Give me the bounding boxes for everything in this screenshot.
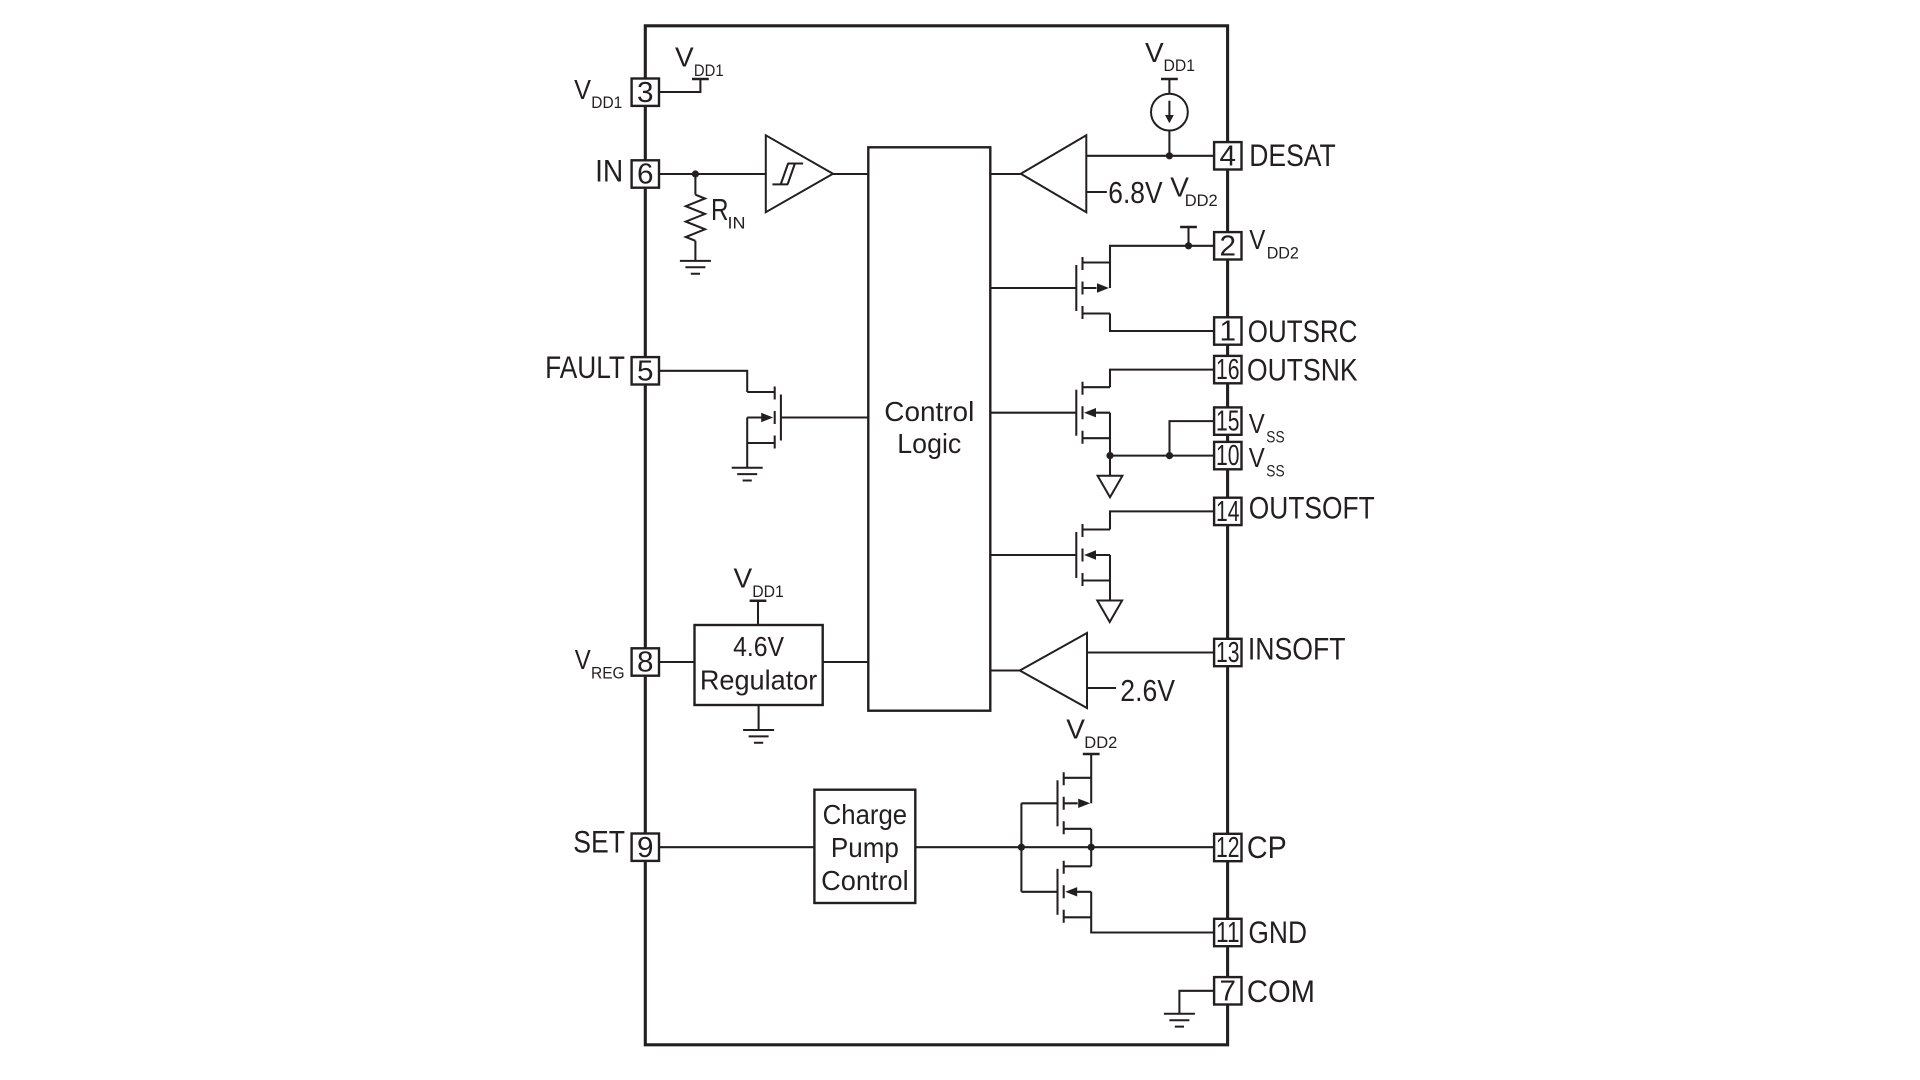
wire comparator to control logic (990, 669, 1020, 671)
svg-text:V: V (1249, 442, 1265, 473)
wire SET to charge pump control (659, 846, 815, 848)
transistor sink-driver NMOS (1076, 382, 1110, 444)
pin 4 box (1214, 140, 1241, 172)
wire comparator to control logic (990, 173, 1021, 175)
wire schmitt to control logic (833, 173, 868, 175)
wire gate bus verticals (1021, 803, 1057, 892)
svg-text:SS: SS (1266, 462, 1284, 481)
wire VSS pin15 jog (1170, 421, 1215, 456)
wire OUTSNK pin to NMOS drain (1110, 370, 1214, 388)
node VSS junction A (1106, 452, 1113, 459)
node IN junction (692, 170, 699, 177)
wire OUTSNK gate from control logic (990, 412, 1076, 414)
svg-text:V: V (1249, 408, 1265, 439)
wire OUTSRC gate from control logic (990, 287, 1076, 289)
pin label OUTSNK (1247, 353, 1358, 388)
wire node to resistor (694, 174, 696, 195)
svg-text:10: 10 (1216, 440, 1240, 472)
svg-text:2: 2 (1220, 230, 1237, 262)
regulator 4.6V block (695, 625, 823, 705)
wire pin3 to VDD1 supply (659, 79, 701, 92)
svg-text:6.8V: 6.8V (1108, 176, 1163, 210)
schmitt trigger buffer (766, 135, 833, 212)
ground below fault transistor (732, 468, 763, 481)
wire regulator to control logic (823, 661, 869, 663)
svg-text:V: V (574, 74, 591, 105)
svg-text:DD1: DD1 (591, 93, 622, 112)
transistor soft-off NMOS (1076, 524, 1110, 586)
svg-text:OUTSRC: OUTSRC (1248, 314, 1358, 349)
pin label CP (1247, 830, 1287, 865)
wire NMOS source to GND pin (1091, 892, 1214, 933)
ground below regulator (743, 730, 774, 743)
svg-text:7: 7 (1220, 975, 1237, 1007)
svg-text:DESAT: DESAT (1249, 138, 1336, 173)
svg-text:DD1: DD1 (694, 61, 724, 80)
svg-text:8: 8 (637, 647, 654, 679)
node VDD2 junction (1185, 242, 1192, 249)
power symbol VDD1 (current source) (1145, 37, 1195, 79)
wire OUTSOFT gate from control logic (990, 554, 1076, 556)
pin 7 box (1214, 975, 1241, 1007)
wire DESAT pin to comparator (1086, 155, 1214, 157)
svg-text:SET: SET (573, 824, 625, 859)
svg-text:IN: IN (728, 214, 746, 233)
VSS triangle (below OUTSOFT) (1097, 601, 1122, 623)
wire VSS node to triangle (1109, 456, 1111, 476)
pin label DESAT (1249, 138, 1336, 173)
svg-text:14: 14 (1216, 496, 1240, 528)
svg-text:OUTSNK: OUTSNK (1247, 353, 1358, 388)
svg-text:CP: CP (1247, 830, 1287, 865)
resistor RIN (686, 193, 746, 241)
svg-text:COM: COM (1247, 974, 1315, 1009)
svg-text:V: V (575, 644, 591, 675)
svg-text:DD2: DD2 (1185, 191, 1218, 210)
wire CP node to NMOS drain (1090, 847, 1092, 866)
svg-text:Control: Control (821, 865, 909, 896)
wire INSOFT pin to comparator (1087, 651, 1214, 653)
node CP output (1088, 844, 1095, 851)
wire resistor to ground (694, 241, 696, 261)
svg-text:Pump: Pump (831, 832, 899, 863)
wire OUTSOFT pin to NMOS drain (1110, 511, 1214, 529)
wire VDD1 bar to regulator (757, 601, 759, 625)
svg-text:4: 4 (1220, 140, 1237, 172)
pin 2 box (1214, 230, 1241, 262)
svg-text:2.6V: 2.6V (1120, 674, 1175, 708)
wire VDD2 pin to PMOS source (1110, 246, 1214, 288)
svg-text:R: R (711, 193, 729, 227)
pin label VSS (15) (1249, 408, 1285, 447)
pin 3 box (632, 77, 659, 109)
transistor source-driver PMOS (1076, 257, 1110, 319)
pin label VDD2 (1249, 224, 1299, 263)
svg-text:V: V (734, 563, 753, 594)
pin label IN (595, 153, 623, 188)
wire VSS node to pin10 (1110, 455, 1214, 457)
svg-text:Regulator: Regulator (700, 664, 818, 695)
VSS triangle (below OUTSNK) (1098, 476, 1123, 498)
pin label SET (573, 824, 625, 859)
svg-text:SS: SS (1266, 428, 1284, 447)
pin 14 box (1214, 496, 1241, 528)
svg-text:V: V (1145, 37, 1164, 68)
ground at COM (1164, 1014, 1195, 1027)
svg-text:OUTSOFT: OUTSOFT (1249, 491, 1375, 526)
svg-text:REG: REG (591, 664, 625, 683)
svg-text:DD2: DD2 (1084, 733, 1117, 752)
svg-text:V: V (1066, 713, 1085, 744)
pin label FAULT (545, 350, 625, 385)
charge pump control block (814, 790, 915, 903)
svg-text:DD2: DD2 (1267, 244, 1299, 263)
wire PMOS drain to CP node (1090, 829, 1092, 847)
pin 11 box (1214, 917, 1241, 949)
comparator desat 6.8V (1021, 135, 1163, 212)
pin label GND (1248, 915, 1307, 950)
wire regulator to ground (758, 705, 760, 730)
pin 12 box (1214, 832, 1241, 864)
pin 1 box (1214, 316, 1241, 348)
wire VDD2 to PMOS source (1090, 754, 1092, 803)
svg-text:DD1: DD1 (1164, 56, 1196, 75)
comparator insoft 2.6V (1020, 633, 1176, 708)
svg-text:12: 12 (1216, 832, 1240, 864)
svg-text:Logic: Logic (897, 428, 961, 459)
IC boundary box U1 (645, 26, 1227, 1045)
svg-text:6: 6 (637, 159, 654, 191)
svg-text:V: V (1249, 224, 1265, 255)
wire IN to schmitt buffer (659, 173, 766, 175)
wire fault gate to control logic (781, 416, 868, 418)
wire NMOS source to VSS triangle (1109, 555, 1111, 601)
svg-text:V: V (675, 42, 694, 73)
pin 15 box (1214, 406, 1241, 438)
pin 8 box (632, 647, 659, 679)
svg-text:INSOFT: INSOFT (1248, 631, 1346, 666)
svg-text:13: 13 (1216, 637, 1240, 669)
control logic block (868, 147, 990, 710)
wire NMOS source to VSS node (1109, 413, 1111, 456)
wire charge pump to CP pin (915, 846, 1214, 848)
svg-text:DD1: DD1 (752, 582, 784, 601)
svg-text:5: 5 (637, 355, 654, 387)
ground below RIN (680, 261, 711, 274)
svg-text:GND: GND (1248, 915, 1307, 950)
pin 10 box (1214, 440, 1241, 472)
pin 6 box (632, 159, 659, 191)
wire PMOS drain to OUTSRC pin (1110, 314, 1214, 332)
pin label VDD1 (574, 74, 622, 112)
transistor charge-pump PMOS (1058, 772, 1092, 834)
power symbol VDD1 (regulator) (734, 563, 784, 602)
transistor Q1 fault open-drain NMOS (mirrored) (747, 387, 781, 449)
node CP gate drive (1018, 844, 1025, 851)
pin label INSOFT (1248, 631, 1346, 666)
pin 5 box (632, 355, 659, 387)
pin 13 box (1214, 637, 1241, 669)
svg-text:1: 1 (1220, 316, 1237, 348)
wire fault source to ground (746, 418, 748, 468)
svg-text:11: 11 (1216, 917, 1240, 949)
wire COM pin to ground (1179, 991, 1214, 1014)
svg-text:4.6V: 4.6V (733, 631, 785, 662)
pin label OUTSRC (1248, 314, 1358, 349)
node DESAT junction (1166, 152, 1173, 159)
svg-text:Charge: Charge (823, 799, 908, 830)
node VSS junction B (1166, 452, 1173, 459)
wire FAULT to transistor drain (659, 371, 747, 392)
svg-text:IN: IN (595, 153, 623, 188)
pin label VSS (10) (1249, 442, 1285, 481)
pin 9 box (632, 832, 659, 864)
pin label VREG (575, 644, 625, 683)
power symbol VDD2 (charge pump) (1066, 713, 1117, 754)
power symbol VDD1 (pin 3) (675, 42, 724, 80)
svg-text:3: 3 (637, 77, 654, 109)
transistor charge-pump NMOS (1058, 861, 1092, 923)
pin label COM (1247, 974, 1315, 1009)
wire VREG to regulator (659, 661, 695, 663)
svg-text:Control: Control (884, 396, 974, 427)
svg-text:15: 15 (1216, 406, 1240, 438)
svg-text:16: 16 (1216, 354, 1240, 386)
pin label OUTSOFT (1249, 491, 1375, 526)
current source I1 (1151, 79, 1188, 156)
svg-text:FAULT: FAULT (545, 350, 625, 385)
svg-text:9: 9 (637, 832, 654, 864)
power symbol VDD2 (pin 2) (1170, 171, 1217, 245)
pin 16 box (1214, 354, 1241, 386)
